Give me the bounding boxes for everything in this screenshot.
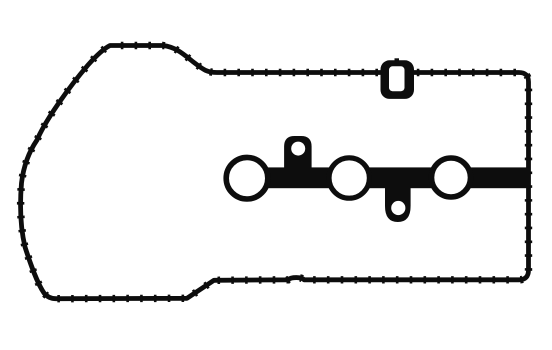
tick marks along outline (dashed overlay) bbox=[21, 46, 529, 299]
bolt hole ring 3 (right) bbox=[432, 158, 471, 197]
gasket outer outline bbox=[21, 46, 529, 299]
bolt hole ring 1 (left) bbox=[226, 157, 268, 199]
bolt hole ring 2 (middle) bbox=[329, 158, 369, 198]
mounting tab at top edge (square boss with notch) bbox=[381, 58, 415, 99]
upper boss with bolt hole bbox=[284, 136, 312, 168]
lower boss with bolt hole bbox=[385, 186, 411, 222]
seal bar (horizontal black band) bbox=[247, 167, 530, 188]
